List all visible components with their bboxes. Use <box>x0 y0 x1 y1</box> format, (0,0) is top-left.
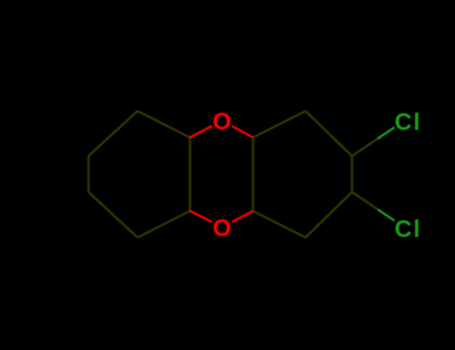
wire bond C1-C2 top-right edge <box>306 111 353 156</box>
wire bond C8-O1 <box>190 126 212 138</box>
wire bond C3-Cl2 carbon half <box>352 192 378 209</box>
svg-text:Cl: Cl <box>395 216 422 243</box>
wire bond C2-C3 right edge <box>351 156 353 192</box>
wire bond C11-C6 left edge <box>87 156 89 192</box>
left benzene ring <box>89 111 191 238</box>
wire bond C4-C13 bottom-left edge <box>253 211 306 238</box>
wire bond C9-O2 <box>190 211 212 222</box>
wire bond C3-C4 bottom-right edge <box>306 192 353 238</box>
svg-text:Cl: Cl <box>395 109 422 136</box>
svg-text:O: O <box>213 109 232 136</box>
wire bond O2-C13 <box>232 211 253 222</box>
wire bond O1-C12 <box>232 126 253 138</box>
chlorine green bond halves <box>378 127 395 220</box>
wire bond C2-Cl1 carbon half <box>352 139 378 156</box>
wire bond C9-C10 bottom-right edge <box>138 211 191 238</box>
wire bond C8-C9 fusion edge left <box>189 138 191 212</box>
wire bond C7-C8 top-right edge <box>138 111 191 138</box>
central dioxin ring red oxygen bonds <box>190 126 253 222</box>
right benzene ring <box>253 111 378 238</box>
wire bond C12-C1 top-left edge <box>253 111 306 138</box>
wire bond C6-C7 top-left edge <box>89 111 138 156</box>
wire bond Cl2 half bottom <box>378 209 395 220</box>
svg-text:O: O <box>213 215 232 242</box>
wire bond Cl1 half top <box>378 127 395 138</box>
wire bond C12-C13 fusion edge right <box>252 138 254 212</box>
wire bond C10-C11 bottom-left edge <box>89 192 138 238</box>
